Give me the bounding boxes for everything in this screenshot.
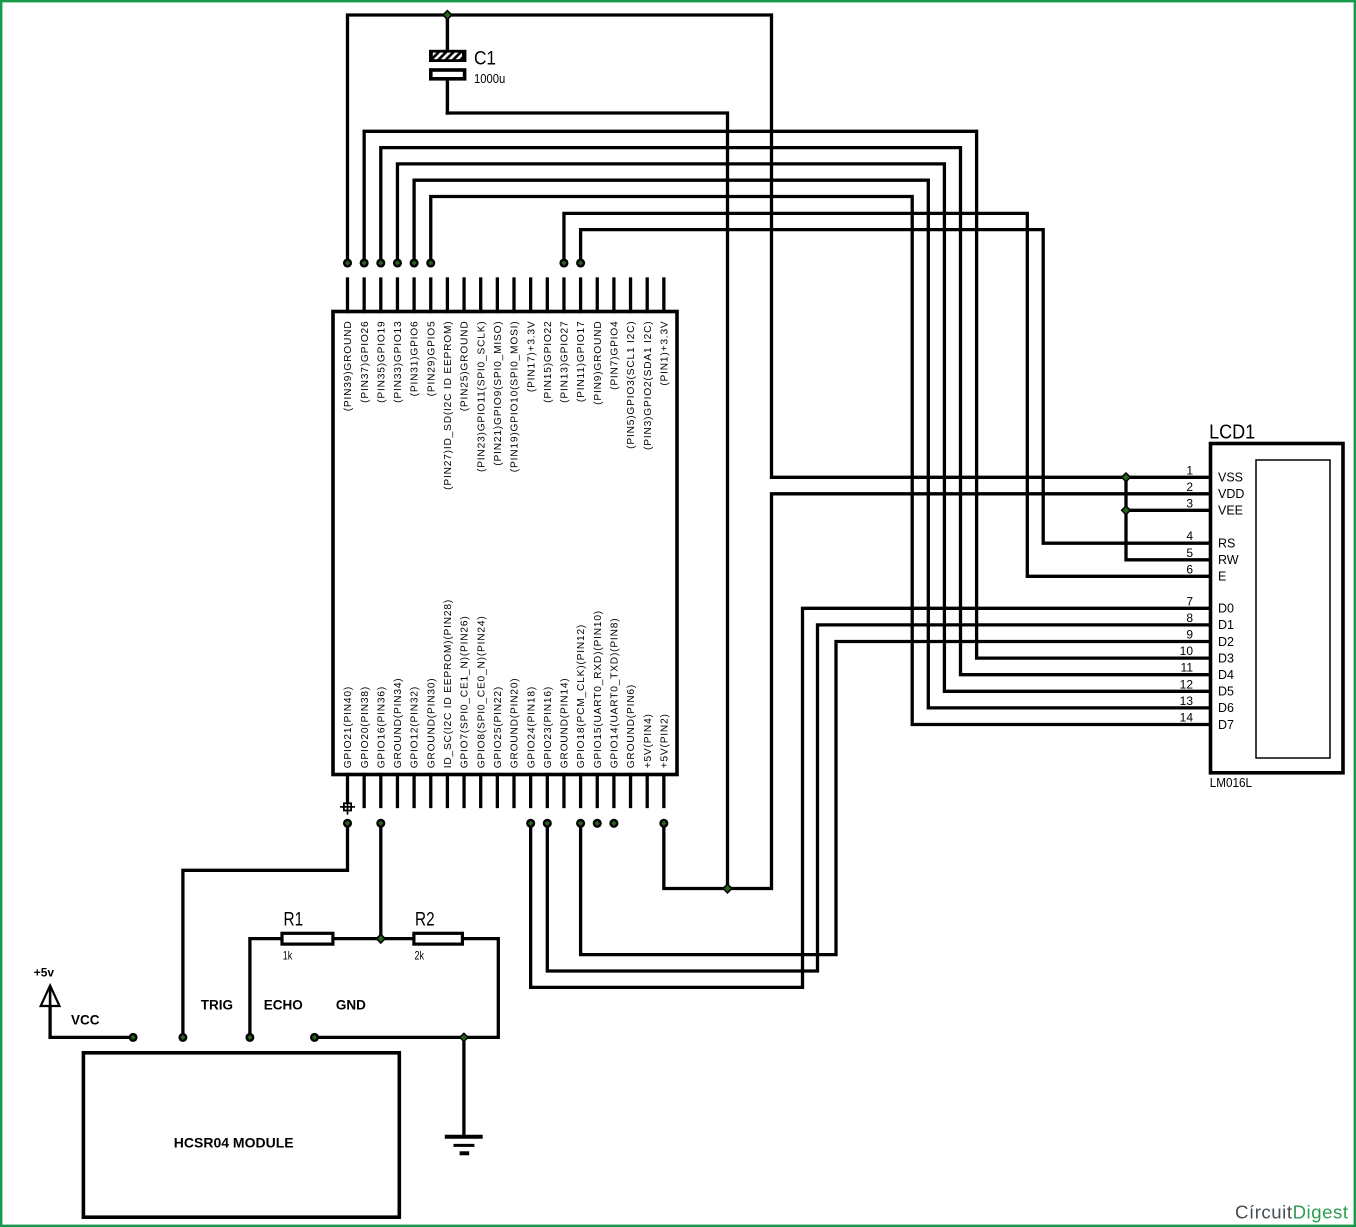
svg-text:CírcuitDigest: CírcuitDigest xyxy=(1235,1202,1349,1223)
svg-text:(PIN27)ID_SD(I2C ID EEPROM): (PIN27)ID_SD(I2C ID EEPROM) xyxy=(443,321,454,490)
svg-text:(PIN19)GPIO10(SPI0_MOSI): (PIN19)GPIO10(SPI0_MOSI) xyxy=(510,321,521,473)
svg-text:R2: R2 xyxy=(415,909,435,931)
svg-text:D2: D2 xyxy=(1218,635,1234,649)
svg-text:1000u: 1000u xyxy=(474,72,505,86)
svg-text:+5v: +5v xyxy=(34,966,55,980)
svg-text:D3: D3 xyxy=(1218,651,1234,665)
svg-text:D7: D7 xyxy=(1218,718,1234,732)
svg-text:2k: 2k xyxy=(415,949,425,963)
svg-text:13: 13 xyxy=(1180,694,1194,708)
svg-text:LCD1: LCD1 xyxy=(1209,421,1255,443)
svg-text:GPIO25(PIN22): GPIO25(PIN22) xyxy=(493,686,504,768)
svg-text:12: 12 xyxy=(1180,677,1194,691)
svg-text:(PIN35)GPIO19: (PIN35)GPIO19 xyxy=(376,321,387,403)
svg-text:+5V(PIN2): +5V(PIN2) xyxy=(659,713,670,768)
svg-text:C1: C1 xyxy=(474,48,496,70)
svg-text:HCSR04 MODULE: HCSR04 MODULE xyxy=(174,1135,294,1151)
svg-text:ECHO: ECHO xyxy=(264,998,303,1013)
svg-text:GPIO21(PIN40): GPIO21(PIN40) xyxy=(343,686,354,768)
svg-text:GROUND(PIN34): GROUND(PIN34) xyxy=(393,678,404,769)
svg-text:1: 1 xyxy=(1186,463,1193,477)
svg-text:8: 8 xyxy=(1186,611,1193,625)
svg-text:(PIN23)GPIO11(SPI0_SCLK): (PIN23)GPIO11(SPI0_SCLK) xyxy=(476,321,487,473)
svg-text:GPIO16(PIN36): GPIO16(PIN36) xyxy=(376,686,387,768)
svg-text:R1: R1 xyxy=(284,909,304,931)
svg-text:E: E xyxy=(1218,570,1226,584)
svg-text:GROUND(PIN6): GROUND(PIN6) xyxy=(626,684,637,768)
svg-text:(PIN11)GPIO17: (PIN11)GPIO17 xyxy=(576,321,587,403)
svg-text:GPIO20(PIN38): GPIO20(PIN38) xyxy=(360,686,371,768)
svg-text:D0: D0 xyxy=(1218,602,1234,616)
svg-text:6: 6 xyxy=(1186,562,1193,576)
svg-text:GPIO15(UART0_RXD)(PIN10): GPIO15(UART0_RXD)(PIN10) xyxy=(593,610,604,768)
svg-text:(PIN3)GPIO2(SDA1 I2C): (PIN3)GPIO2(SDA1 I2C) xyxy=(643,321,654,450)
svg-text:VEE: VEE xyxy=(1218,504,1243,518)
svg-text:RW: RW xyxy=(1218,553,1239,567)
svg-text:(PIN29)GPIO5: (PIN29)GPIO5 xyxy=(426,321,437,397)
svg-text:3: 3 xyxy=(1186,496,1193,510)
svg-text:VCC: VCC xyxy=(71,1013,100,1028)
svg-text:GPIO12(PIN32): GPIO12(PIN32) xyxy=(410,686,421,768)
svg-text:GPIO18(PCM_CLK)(PIN12): GPIO18(PCM_CLK)(PIN12) xyxy=(576,624,587,768)
svg-text:GPIO8(SPI0_CE0_N)(PIN24): GPIO8(SPI0_CE0_N)(PIN24) xyxy=(476,615,487,768)
svg-text:(PIN33)GPIO13: (PIN33)GPIO13 xyxy=(393,321,404,403)
svg-text:10: 10 xyxy=(1180,644,1194,658)
svg-text:GPIO7(SPI0_CE1_N)(PIN26): GPIO7(SPI0_CE1_N)(PIN26) xyxy=(460,615,471,768)
svg-text:(PIN21)GPIO9(SPI0_MISO): (PIN21)GPIO9(SPI0_MISO) xyxy=(493,321,504,466)
svg-text:(PIN39)GROUND: (PIN39)GROUND xyxy=(343,321,354,412)
svg-text:LM016L: LM016L xyxy=(1210,776,1252,790)
svg-text:14: 14 xyxy=(1180,711,1194,725)
svg-text:GROUND(PIN30): GROUND(PIN30) xyxy=(426,678,437,769)
svg-text:VDD: VDD xyxy=(1218,487,1244,501)
svg-text:RS: RS xyxy=(1218,537,1235,551)
svg-text:2: 2 xyxy=(1186,480,1193,494)
svg-text:9: 9 xyxy=(1186,628,1193,642)
svg-text:GROUND(PIN20): GROUND(PIN20) xyxy=(510,678,521,769)
svg-text:(PIN9)GROUND: (PIN9)GROUND xyxy=(593,321,604,405)
svg-text:7: 7 xyxy=(1186,594,1193,608)
svg-text:11: 11 xyxy=(1181,661,1194,675)
svg-text:TRIG: TRIG xyxy=(201,998,233,1013)
svg-text:GPIO24(PIN18): GPIO24(PIN18) xyxy=(526,686,537,768)
svg-text:D1: D1 xyxy=(1218,618,1234,632)
svg-text:1k: 1k xyxy=(283,949,293,963)
svg-text:D6: D6 xyxy=(1218,701,1234,715)
svg-text:D4: D4 xyxy=(1218,668,1234,682)
svg-text:GROUND(PIN14): GROUND(PIN14) xyxy=(560,678,571,769)
svg-text:GPIO14(UART0_TXD)(PIN8): GPIO14(UART0_TXD)(PIN8) xyxy=(610,618,621,769)
svg-text:VSS: VSS xyxy=(1218,471,1243,485)
svg-text:+5V(PIN4): +5V(PIN4) xyxy=(643,713,654,768)
svg-text:(PIN37)GPIO26: (PIN37)GPIO26 xyxy=(360,321,371,403)
svg-text:ID_SC(I2C ID EEPROM)(PIN28): ID_SC(I2C ID EEPROM)(PIN28) xyxy=(443,599,454,768)
svg-text:(PIN25)GROUND: (PIN25)GROUND xyxy=(460,321,471,412)
svg-text:(PIN13)GPIO27: (PIN13)GPIO27 xyxy=(560,321,571,403)
svg-text:(PIN5)GPIO3(SCL1 I2C): (PIN5)GPIO3(SCL1 I2C) xyxy=(626,321,637,449)
svg-text:(PIN1)+3.3V: (PIN1)+3.3V xyxy=(659,321,670,386)
svg-text:GPIO23(PIN16): GPIO23(PIN16) xyxy=(543,686,554,768)
svg-text:(PIN15)GPIO22: (PIN15)GPIO22 xyxy=(543,321,554,403)
svg-text:D5: D5 xyxy=(1218,685,1234,699)
svg-text:5: 5 xyxy=(1186,546,1193,560)
svg-text:4: 4 xyxy=(1186,529,1193,543)
svg-text:(PIN17)+3.3V: (PIN17)+3.3V xyxy=(526,321,537,393)
svg-text:GND: GND xyxy=(336,998,366,1013)
svg-text:(PIN31)GPIO6: (PIN31)GPIO6 xyxy=(410,321,421,397)
svg-text:(PIN7)GPIO4: (PIN7)GPIO4 xyxy=(610,321,621,390)
